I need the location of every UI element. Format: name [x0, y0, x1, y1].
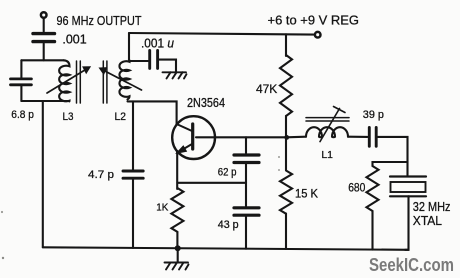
- arrow through L2: [99, 68, 141, 90]
- crystal bottom plate: [390, 195, 426, 197]
- wire 680 to rail: [371, 211, 373, 250]
- core lines L2: [102, 61, 104, 103]
- terminal 96 MHz output: [41, 12, 47, 18]
- ground (top): [163, 72, 187, 78]
- svg-text:L3: L3: [63, 111, 74, 123]
- transistor base bar: [191, 124, 194, 149]
- svg-text:L1: L1: [321, 149, 333, 161]
- wire ground stub: [177, 248, 179, 261]
- transistor collector diagonal: [177, 124, 192, 131]
- resistor R1 1K: [171, 188, 183, 232]
- wire L1 to 39p: [348, 136, 368, 138]
- arrow through L3: [47, 67, 90, 93]
- wire L2 bottom down: [132, 101, 134, 169]
- wire tank to bottom rail: [42, 101, 44, 247]
- svg-text:47K: 47K: [256, 82, 277, 96]
- capacitor C4 .001u: [150, 50, 158, 68]
- terminal +6 to +9V REG: [315, 32, 321, 38]
- svg-text:L2: L2: [115, 111, 127, 123]
- svg-text:62 p: 62 p: [218, 167, 237, 179]
- svg-text:39 p: 39 p: [363, 109, 384, 121]
- resistor R3 15K: [280, 171, 292, 214]
- wire xtal to rail: [405, 196, 409, 250]
- svg-text:680: 680: [348, 181, 365, 195]
- svg-text:43 p: 43 p: [218, 219, 239, 231]
- wire L2 bottom to collector: [128, 101, 177, 125]
- wire node to L1: [287, 136, 307, 139]
- core lines L1: [306, 117, 349, 119]
- wire 15K to rail: [285, 214, 287, 250]
- wire L2 top to C4: [129, 60, 148, 62]
- svg-text:4.7 p: 4.7 p: [88, 169, 114, 181]
- crystal Y1 32 MHz top plate: [390, 175, 426, 177]
- wire 47K to node: [285, 116, 287, 137]
- resistor R2 47K: [280, 55, 292, 116]
- wire 43p to rail: [245, 217, 247, 249]
- junction dot base node: [284, 135, 289, 140]
- junction dot ground node: [175, 245, 181, 251]
- wire 62p to 43p: [245, 164, 247, 206]
- svg-text:+6 to +9 V REG: +6 to +9 V REG: [268, 13, 360, 28]
- inductor L2: [119, 60, 129, 100]
- capacitor C7 39p: [369, 128, 376, 147]
- capacitor C6 43p: [234, 208, 259, 215]
- wire base to node: [196, 136, 287, 138]
- wire 62p branch: [245, 137, 247, 153]
- capacitor C3 4.7p: [123, 171, 143, 178]
- wire emitter down: [176, 151, 178, 189]
- wire 47K top: [285, 34, 287, 56]
- speckle: [2, 257, 4, 259]
- wire 1K to rail: [176, 232, 178, 248]
- wire top rail to L2: [128, 33, 130, 60]
- wire node to 15K: [285, 137, 287, 170]
- wire C1 to tank top: [43, 44, 45, 61]
- wire terminal to C1: [43, 18, 45, 31]
- resistor R4 680: [367, 166, 379, 211]
- wire tank top: [21, 59, 63, 61]
- svg-text:XTAL: XTAL: [413, 213, 442, 228]
- speckle: [1, 211, 3, 213]
- wire C4 to ground: [159, 60, 176, 72]
- svg-text:.001: .001: [62, 31, 86, 46]
- svg-text:15 K: 15 K: [295, 187, 318, 201]
- transistor Q1 2N3564 circle: [172, 116, 215, 159]
- inductor L1: [306, 127, 348, 137]
- power rail top: [129, 33, 314, 35]
- wire tank bottom: [21, 100, 69, 102]
- capacitor C2 6.8p: [20, 60, 22, 77]
- capacitor C1 .001: [33, 34, 55, 42]
- wire branch to 680: [373, 162, 408, 166]
- capacitor C5 62p: [234, 155, 259, 163]
- transistor emitter diagonal with arrow: [176, 144, 192, 153]
- speckle: [278, 169, 280, 171]
- speckle: [278, 156, 280, 158]
- svg-text:32 MHz: 32 MHz: [413, 199, 451, 214]
- svg-text:2N3564: 2N3564: [187, 95, 225, 110]
- svg-text:6.8 p: 6.8 p: [11, 109, 34, 121]
- arrow through L1 (slug tuning): [320, 107, 345, 142]
- svg-text:96 MHz OUTPUT: 96 MHz OUTPUT: [57, 13, 142, 28]
- svg-text:1K: 1K: [156, 202, 168, 213]
- svg-text:.001 u: .001 u: [141, 36, 174, 51]
- inductor L3: [59, 60, 69, 101]
- wire 39p to xtal branch: [378, 137, 408, 175]
- crystal body: [391, 182, 426, 192]
- bottom rail: [43, 247, 409, 250]
- wire emitter tap: [177, 182, 246, 184]
- svg-text:SeekIC.com: SeekIC.com: [369, 255, 454, 275]
- core lines L3: [76, 61, 78, 103]
- ground (bottom): [165, 263, 189, 270]
